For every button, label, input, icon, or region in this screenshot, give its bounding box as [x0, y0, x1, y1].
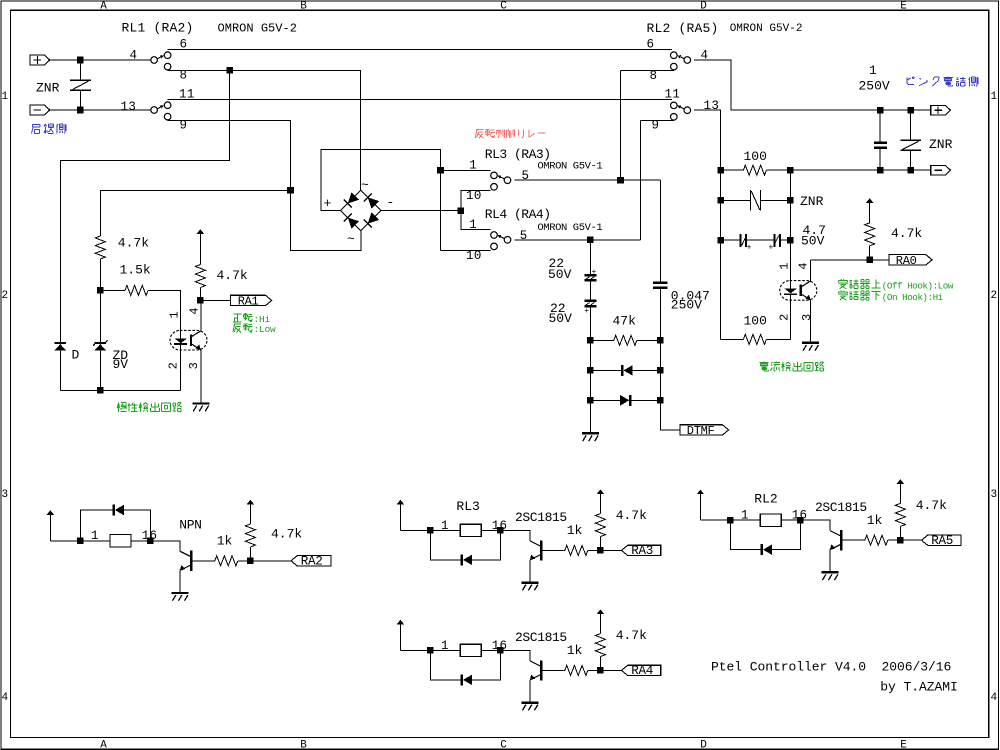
svg-text:2: 2 [1, 290, 8, 302]
wire junction to RL4 pin1 [461, 211, 491, 230]
svg-text:RA3: RA3 [631, 544, 653, 558]
label 4.7 (cap) [803, 223, 826, 238]
resistor 4.7k (polarity divider top) [95, 236, 105, 259]
wire 4.7k to RA0 node [869, 246, 871, 260]
svg-text:1: 1 [1, 91, 8, 103]
relay RL3 contact (common pin5) [491, 172, 511, 190]
wire junction down to bridge ~bottom [291, 190, 362, 250]
label ~ (bridge ac bottom) [347, 232, 355, 247]
pin label 1 (PC1) [168, 311, 182, 318]
diode D (reverse clamp) [55, 342, 66, 350]
svg-text:4.7k: 4.7k [271, 527, 302, 542]
svg-text:D: D [72, 348, 80, 363]
svg-text:RA4: RA4 [631, 664, 653, 678]
svg-text:RL1 (RA2): RL1 (RA2) [122, 21, 194, 36]
label OMRON G5V-1 (RL3) [537, 161, 602, 173]
label ZNR-R [929, 137, 953, 152]
note 受話器下(On Hook):Hi [838, 291, 944, 303]
svg-text:(On Hook):Hi: (On Hook):Hi [882, 292, 944, 303]
svg-text:13: 13 [121, 100, 137, 114]
relay RL1 contact b (common pin13) [151, 102, 171, 120]
label 22 (lower) [550, 301, 566, 316]
label ZD [113, 348, 129, 363]
svg-text:+: + [324, 196, 332, 211]
svg-text:50V: 50V [801, 233, 825, 248]
svg-text:1k: 1k [567, 523, 583, 538]
wire RL3 pin5 to cap/net [514, 179, 660, 181]
svg-text:1.5k: 1.5k [120, 263, 151, 278]
wire PC2 pin4 to RA0 flag [811, 259, 889, 261]
wire RL2 pin4 to phone + line [694, 60, 931, 110]
label 2SC1815 (RA3) [515, 510, 567, 525]
junction coil pin1 RA4 [427, 647, 434, 654]
resistor 1k (RA4) [542, 665, 600, 675]
junction 47k left [587, 337, 594, 344]
relay coil RA2 [80, 535, 150, 547]
wire rail-R row2-row3 [789, 200, 791, 240]
svg-text:4.7k: 4.7k [118, 236, 149, 251]
capacitor 22/50V (upper) [584, 268, 596, 300]
resistor 4.7k (RA5) [895, 503, 905, 540]
svg-text:RA0: RA0 [896, 254, 917, 268]
label 4.7k (RA2) [271, 527, 302, 542]
junction coil pin1 RA2 [77, 538, 84, 545]
flag RA4 [622, 665, 661, 675]
wire base node to flag RA2 [250, 560, 291, 562]
svg-text:RA2: RA2 [301, 555, 323, 569]
junction base node RA4 [597, 667, 604, 674]
transistor 2SC1815 (RA4 driver) [500, 650, 542, 701]
svg-text:4.7k: 4.7k [916, 498, 947, 513]
wire rail-L row1-row2 [720, 170, 722, 200]
label 47k [613, 313, 637, 328]
pin label 1 (coil RA5) [741, 509, 749, 523]
junction coil pin16 RA3 [497, 527, 504, 534]
label OMRON G5V-2 (RL1) [218, 22, 297, 36]
junction rail-L row2 [717, 197, 724, 204]
svg-text:3: 3 [187, 362, 201, 369]
label OMRON G5V-1 (RL4) [537, 222, 602, 234]
wire +V to coil RA5 [700, 519, 730, 521]
svg-text:RL3: RL3 [456, 499, 479, 514]
label NPN (RA2) [179, 517, 201, 532]
pin label 13 (RL2) [704, 99, 720, 113]
wire +V to coil RA2 [50, 540, 80, 542]
wire RL2 pin13 down [694, 110, 721, 170]
wire base node to flag RA3 [600, 549, 621, 551]
junction base node RA5 [897, 537, 904, 544]
pin label 5 (RL4) [520, 229, 528, 243]
svg-text:(Off Hook):Low: (Off Hook):Low [882, 281, 954, 292]
flag RA1 [230, 295, 271, 305]
wire rail-R diode row1 to row2 [659, 370, 661, 400]
wire base node to flag RA5 [900, 539, 921, 541]
svg-text:-: - [387, 195, 395, 210]
ground (DTMF clamp rail) [582, 432, 599, 441]
pin label 4 (PC1) [188, 307, 202, 314]
wire RL2 pin9 drop [640, 120, 642, 240]
power arrow (+V RA5) [697, 490, 704, 521]
junction diode row1 left [587, 367, 594, 374]
junction + / ZNR-L [77, 57, 84, 64]
svg-text:4.7k: 4.7k [616, 628, 647, 643]
svg-text:2SC1815: 2SC1815 [515, 630, 567, 645]
label ZNR-L [36, 81, 60, 96]
note 正転:Hi [233, 313, 271, 325]
svg-text:5: 5 [520, 229, 528, 243]
junction diode row2 right [657, 397, 664, 404]
varistor ZNR-L [70, 60, 91, 110]
wire bottom rail (D - ZD - PC1 pin2) [60, 389, 180, 391]
wire bridge - to junction [381, 210, 461, 212]
wire net9 RL1 pin9 to junction [168, 120, 291, 190]
title by T.AZAMI [880, 679, 958, 694]
power arrow (+V RA2) [47, 510, 54, 541]
pin label 6 (RL1) [180, 38, 188, 52]
power arrow (+V RA4) [397, 620, 404, 651]
label 1k (RA5) [867, 513, 883, 528]
resistor 4.7k (RA1 pullup) [195, 265, 205, 288]
photocoupler PC2 [780, 260, 817, 342]
svg-text:OMRON G5V-1: OMRON G5V-1 [537, 222, 602, 234]
svg-text:1k: 1k [867, 513, 883, 528]
resistor 4.7k (RA2) [245, 524, 255, 561]
ground (RA4 driver) [522, 701, 539, 710]
label 250V [859, 79, 890, 94]
wire RA1 node to flag [200, 299, 230, 301]
label 4.7k (RA0 pullup) [891, 226, 922, 241]
svg-text:2: 2 [167, 362, 181, 369]
label D [72, 348, 80, 363]
wire rail-L row2-row3 [720, 200, 722, 240]
svg-text:4: 4 [797, 262, 811, 269]
resistor 100 (top) [721, 165, 791, 175]
junction phone+ / ZNR-R [907, 107, 914, 114]
pin label 16 (coil RA4) [492, 639, 507, 653]
svg-text:1: 1 [869, 63, 877, 78]
junction base node RA3 [597, 547, 604, 554]
svg-text:DTMF: DTMF [687, 424, 715, 438]
svg-text:10: 10 [466, 249, 482, 263]
pin label 11 (RL1) [179, 88, 195, 102]
label 50V (upper) [548, 267, 572, 282]
svg-text:2: 2 [778, 314, 792, 321]
svg-text::Low: :Low [254, 324, 277, 335]
wire net6 RL1 pin6 to RL2 pin6 [168, 49, 673, 51]
junction diode row2 left [587, 397, 594, 404]
photocoupler PC1 [170, 300, 207, 402]
wire rail-L row3-row4 [720, 240, 722, 339]
resistor 1.5k (PC1 series) [100, 285, 180, 330]
transistor 2SC1815 (RA5 driver) [800, 520, 842, 571]
ground (PC1 pin3) [192, 402, 209, 411]
svg-text:9V: 9V [113, 357, 129, 372]
wire junction to RL3 pin1 [441, 169, 491, 171]
label 50V (cap) [801, 233, 825, 248]
resistor 1k (RA5) [842, 535, 900, 545]
wire RL2 pin8 drop [620, 70, 622, 180]
svg-text:1: 1 [168, 311, 182, 318]
flyback diode RA2 [80, 505, 150, 541]
label 2SC1815 (RA4) [515, 630, 567, 645]
svg-text:A: A [100, 0, 107, 12]
junction net9 / 4.7k / bridge bottom [287, 187, 294, 194]
label 1k (RA3) [567, 523, 583, 538]
junction 47k right [657, 337, 664, 344]
label RA5 [931, 534, 953, 548]
junction - / ZNR-L [77, 107, 84, 114]
junction rail-L row1 [717, 167, 724, 174]
pin label 16 (coil RA5) [792, 509, 807, 523]
label OMRON G5V-2 (RL2) [730, 23, 803, 35]
wire rail-R 47k to diode row1 [659, 340, 661, 370]
svg-text:C: C [500, 740, 507, 750]
label 4.7k [118, 236, 149, 251]
flag DTMF [680, 425, 729, 435]
junction coil pin16 RA4 [497, 647, 504, 654]
svg-text:8: 8 [650, 69, 658, 83]
junction bridge+ / RL3 pin1 [437, 167, 444, 174]
junction phone- / ZNR-R [907, 167, 914, 174]
label 局線側 (exchange side) [32, 124, 67, 134]
wire junction to RL3 pin10 [461, 190, 491, 210]
pin label 13 (RL1) [121, 100, 137, 114]
pin label 9 (RL1) [180, 118, 188, 132]
pin label 10 (RL3) [466, 189, 482, 203]
junction ZD bottom rail [97, 387, 104, 394]
pin label 3 (PC2) [800, 314, 814, 321]
power arrow (4.7k RA4) [597, 609, 604, 633]
svg-text:ZNR: ZNR [36, 81, 60, 96]
svg-text:1: 1 [990, 91, 997, 103]
label RL2 (RA5) [647, 21, 719, 36]
svg-text:RL4 (RA4): RL4 (RA4) [485, 207, 551, 222]
label RL4 (RA4) [485, 207, 551, 222]
svg-text:100: 100 [744, 149, 767, 164]
wire D to rail [59, 350, 61, 390]
svg-text:1: 1 [469, 218, 477, 232]
capacitor 0.047/250V [653, 282, 668, 341]
svg-text:NPN: NPN [179, 517, 201, 532]
wire net8 RL1 pin8 to bridge ~top [168, 70, 361, 190]
power arrow (RA0 pullup) [866, 198, 873, 223]
label 0.047 [671, 288, 710, 303]
pin label 4 (PC2) [797, 262, 811, 269]
pin label 1 (RL4) [469, 218, 477, 232]
pin label 4 (RL2) [701, 49, 709, 63]
relay RL1 contact a (common pin4) [151, 52, 171, 70]
label 4.7k (RA4) [616, 628, 647, 643]
label RA0 [896, 254, 917, 268]
svg-text:3: 3 [1, 489, 8, 501]
svg-text:2: 2 [990, 290, 997, 302]
svg-text:~: ~ [347, 232, 355, 247]
diode bridge DB1 [341, 190, 381, 230]
label 1k (RA4) [567, 643, 583, 658]
pin label 8 (RL1) [180, 68, 188, 82]
svg-text:13: 13 [704, 99, 720, 113]
resistor 1k (RA3) [542, 545, 600, 555]
svg-text:+: + [592, 268, 597, 277]
resistor 4.7k (RA4) [595, 634, 605, 671]
label - (bridge dc-) [387, 195, 395, 210]
pin label 2 (PC1) [167, 362, 181, 369]
varistor ZNR (line clamp) [721, 190, 791, 211]
flag RA5 [922, 535, 961, 545]
label ピンク電話側 (pink phone side) [907, 77, 978, 87]
junction net8 branch [226, 67, 233, 74]
label 1.5k [120, 263, 151, 278]
svg-text:~: ~ [361, 178, 369, 193]
svg-text:1: 1 [469, 159, 477, 173]
svg-text:by T.AZAMI: by T.AZAMI [880, 679, 958, 694]
svg-text:OMRON G5V-2: OMRON G5V-2 [730, 23, 803, 35]
flyback diode RA3 [430, 530, 500, 565]
capacitor 22/50V (lower) [584, 300, 597, 341]
pin label 1 (coil RA2) [91, 529, 99, 543]
junction RA1 node [197, 297, 204, 304]
transistor NPN (RA2 driver) [150, 541, 192, 592]
terminal - (pink phone) [931, 165, 951, 175]
pin label 1 (PC2) [778, 262, 792, 269]
svg-text:11: 11 [665, 88, 681, 102]
junction diode row1 right [657, 367, 664, 374]
junction RL4 pin5 / 22uF [587, 237, 594, 244]
label RL3 [456, 499, 479, 514]
svg-text:D: D [700, 0, 707, 12]
pin label 1 (coil RA4) [441, 639, 449, 653]
svg-text:1: 1 [778, 262, 792, 269]
diode clamp (points left) [590, 365, 660, 376]
wire base node to flag RA4 [600, 669, 621, 671]
label 22 (upper) [549, 256, 565, 271]
svg-text:1: 1 [741, 509, 749, 523]
pin label 5 (RL3) [522, 169, 530, 183]
resistor 100 (bottom) [721, 334, 791, 344]
svg-text:B: B [300, 0, 307, 12]
label 9V [113, 357, 129, 372]
relay RL2 contact a (common pin4) [671, 52, 691, 70]
label ZNR (line clamp) [800, 194, 824, 209]
wire junction to 4.7k top [100, 190, 290, 236]
label ~ (bridge ac top) [361, 178, 369, 193]
pin label 9 (RL2) [652, 118, 660, 132]
resistor 1k (RA2) [192, 556, 250, 566]
svg-text:E: E [900, 740, 907, 750]
wire rail-R to DTMF flag [660, 400, 680, 430]
svg-text:4.7k: 4.7k [616, 508, 647, 523]
relay coil RA4 [430, 644, 500, 656]
svg-text:1: 1 [441, 639, 449, 653]
svg-text:A: A [100, 740, 107, 750]
diode clamp (points right) [590, 395, 660, 406]
wire + terminal to RL1 pin4 [50, 59, 151, 61]
svg-text:1k: 1k [567, 643, 583, 658]
wire rail-R row1-row2 [789, 170, 791, 200]
title Ptel Controller V4.0 2006/3/16 [711, 660, 951, 675]
wire rail-L to ground [589, 400, 591, 432]
svg-text:2SC1815: 2SC1815 [815, 500, 867, 515]
label 2SC1815 (RA5) [815, 500, 867, 515]
wire RL4 pin5 to RL2 pin9 net [514, 239, 640, 241]
svg-text:RL2: RL2 [754, 492, 777, 507]
note 反転:Low [233, 323, 276, 335]
junction coil pin1 RA3 [427, 527, 434, 534]
label 1k (RA2) [217, 534, 233, 549]
power arrow (4.7k RA2) [247, 500, 254, 524]
svg-text:+: + [769, 244, 774, 253]
svg-text:4: 4 [990, 692, 997, 704]
svg-text:C: C [500, 0, 507, 12]
svg-text:50V: 50V [549, 311, 573, 326]
svg-text:B: B [300, 740, 307, 750]
junction rail-L row3 [717, 237, 724, 244]
svg-text:4: 4 [1, 692, 8, 704]
svg-text:2SC1815: 2SC1815 [515, 510, 567, 525]
flyback diode RA4 [430, 650, 500, 685]
label 反転制御リレー (reversal control relay) [475, 129, 546, 138]
svg-text:D: D [700, 740, 707, 750]
wire RL2 pin8 to drop [621, 69, 674, 71]
svg-text:OMRON G5V-2: OMRON G5V-2 [218, 22, 297, 36]
wire ZD to junction [99, 290, 101, 342]
svg-text:4: 4 [130, 49, 138, 63]
wire rail-L diode row1 to row2 [589, 370, 591, 400]
svg-text:50V: 50V [548, 267, 572, 282]
junction phone- / cap [877, 167, 884, 174]
svg-text:RA5: RA5 [931, 534, 953, 548]
label + (bridge dc+) [324, 196, 332, 211]
relay RL2 contact b (common pin13) [671, 102, 691, 120]
junction RL3 pin5 / RL2 pin8 [617, 177, 624, 184]
flag RA3 [622, 545, 661, 555]
zener diode ZD 9V [93, 340, 107, 350]
wire 4.7k to RA1 node [199, 288, 201, 301]
svg-text:10: 10 [466, 189, 482, 203]
junction 4.7k/1.5k/ZD [97, 287, 104, 294]
flyback diode RA5 [730, 520, 800, 555]
ground (RA3 driver) [522, 581, 539, 590]
wire RL4-pin5 node down to 22uF [589, 240, 591, 274]
junction rail-R row1 [787, 167, 794, 174]
power arrow (4.7k RA5) [897, 479, 904, 503]
junction base node RA2 [247, 558, 254, 565]
svg-text:250V: 250V [671, 297, 702, 312]
svg-text:1k: 1k [217, 534, 233, 549]
junction RA0 node [866, 257, 873, 264]
label RA4 [631, 664, 653, 678]
wire phone - line [790, 169, 930, 171]
wire +V to coil RA3 [400, 529, 430, 531]
power arrow (4.7k RA3) [597, 489, 604, 513]
junction phone+ / cap [877, 107, 884, 114]
terminal + (exchange line) [30, 55, 50, 65]
label 100 (bottom) [744, 314, 767, 329]
svg-text:RL2 (RA5): RL2 (RA5) [647, 21, 719, 36]
note 電流検出回路 (current detection circuit) [760, 362, 825, 372]
svg-text:250V: 250V [859, 79, 890, 94]
svg-text:3: 3 [800, 314, 814, 321]
junction rail-R row2 [787, 197, 794, 204]
svg-text:6: 6 [647, 38, 655, 52]
pin label 11 (RL2) [665, 88, 681, 102]
resistor 4.7k (RA3) [595, 514, 605, 551]
ground (PC2 pin3) [802, 342, 819, 351]
label 1 (cap value) [869, 63, 877, 78]
pin label 10 (RL4) [466, 249, 482, 263]
wire net11 RL1 pin11 to RL2 pin11 [168, 99, 673, 101]
svg-text:4.7k: 4.7k [891, 226, 922, 241]
